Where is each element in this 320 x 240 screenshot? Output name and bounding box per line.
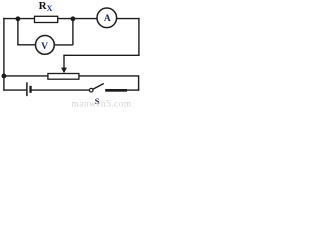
wire voltmeter branch bottom-right horizontal	[54, 44, 73, 46]
wire bottom-left segment	[3, 89, 26, 91]
svg-text:A: A	[104, 14, 111, 24]
wire right vertical upper	[138, 18, 140, 55]
wire right vertical lower	[138, 76, 140, 91]
wire voltmeter branch left vertical	[17, 19, 19, 45]
wire rheostat right terminal	[79, 75, 139, 77]
wire ammeter to right corner	[117, 18, 140, 20]
rheostat R2 body	[48, 74, 79, 80]
rheostat slider arrowhead	[61, 68, 67, 74]
wire left vertical	[3, 18, 5, 91]
wire rheostat left terminal	[4, 75, 48, 77]
switch S blade	[93, 84, 104, 90]
svg-text:manwen5.com: manwen5.com	[72, 100, 132, 109]
svg-text:V: V	[41, 42, 48, 52]
node junction dot left-bottom	[2, 74, 7, 79]
wire slider stem	[63, 55, 65, 69]
battery GB long plate	[26, 82, 28, 96]
wire voltmeter branch right vertical	[72, 19, 74, 45]
node junction dot mid-top	[71, 16, 76, 21]
voltmeter V1 circle	[36, 36, 55, 55]
node junction dot left-top	[16, 16, 21, 21]
wire top-left segment	[3, 18, 34, 20]
wire voltmeter branch bottom-left horizontal	[17, 44, 35, 46]
resistor RX body	[35, 16, 58, 22]
battery GB short plate	[29, 86, 31, 93]
ammeter A1 circle	[97, 8, 117, 28]
wire resistor to ammeter	[58, 18, 97, 20]
wire battery to switch	[31, 89, 89, 91]
svg-text:X: X	[47, 4, 53, 13]
wire bottom-right segment	[127, 89, 139, 91]
switch S fixed contact bar	[105, 89, 127, 92]
switch S pivot circle	[89, 88, 93, 92]
wire slider horizontal	[64, 54, 140, 56]
